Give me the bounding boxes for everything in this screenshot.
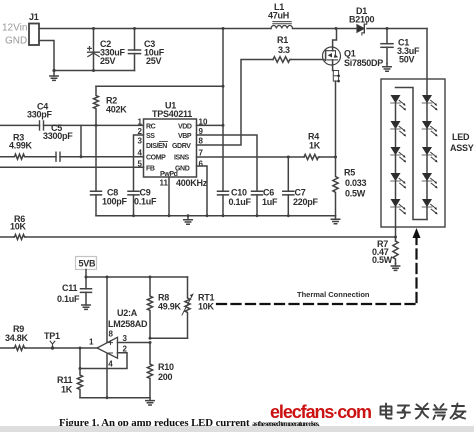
- ground C11: [82, 305, 90, 309]
- junction pin4 rail: [106, 396, 109, 399]
- watermark elecfans.com: [270, 402, 371, 423]
- ground op-amp: [146, 398, 154, 405]
- wire pin4 to rail: [106, 354, 108, 398]
- resistor R10: [147, 343, 152, 398]
- svg-text:RC: RC: [146, 123, 156, 130]
- svg-text:DIS/EN: DIS/EN: [146, 143, 167, 150]
- junction pin8 rail: [106, 276, 109, 279]
- svg-text:25V: 25V: [100, 56, 116, 66]
- svg-text:1K: 1K: [61, 385, 73, 395]
- LED D9 left column: [391, 173, 406, 199]
- capacitor C6: [252, 191, 263, 215]
- svg-text:220pF: 220pF: [293, 197, 319, 207]
- LED D5 right column: [422, 199, 437, 219]
- svg-text:8: 8: [199, 137, 204, 146]
- inductor L1: [271, 22, 293, 29]
- thermal arrow: [413, 228, 421, 238]
- svg-text:0.5W: 0.5W: [372, 255, 393, 265]
- wire C4 branch down to COMP: [80, 125, 82, 156]
- svg-text:11: 11: [160, 179, 169, 188]
- wire R1 to gate: [291, 59, 323, 61]
- wire FB line: [0, 166, 144, 168]
- wire RC line with C4: [0, 124, 144, 126]
- junction C2 bottom: [92, 69, 95, 72]
- wire COMP line: [0, 156, 144, 158]
- svg-text:6: 6: [199, 159, 204, 168]
- svg-text:TPS40211: TPS40211: [152, 109, 192, 119]
- svg-text:200: 200: [158, 372, 173, 382]
- junction C2 top: [92, 27, 95, 30]
- transistor Q1: [323, 29, 341, 158]
- svg-text:Thermal Connection: Thermal Connection: [297, 290, 370, 299]
- LED D4 right column: [422, 173, 437, 199]
- svg-text:1: 1: [89, 338, 94, 347]
- svg-text:3.3: 3.3: [278, 45, 290, 55]
- junction VDD: [222, 124, 225, 127]
- svg-text:C6: C6: [263, 188, 274, 198]
- svg-text:LM258AD: LM258AD: [108, 319, 148, 329]
- LED D1 right column: [422, 95, 437, 121]
- junction C1 top: [386, 27, 389, 30]
- wire top rail after L1: [293, 28, 357, 30]
- junction feedback-R11: [79, 367, 82, 370]
- ground input: [50, 69, 58, 81]
- bottom gray band: [0, 426, 474, 432]
- wire 12V branch down to VDD: [222, 29, 224, 126]
- wire op-amp bottom rail: [80, 397, 150, 399]
- svg-text:3300pF: 3300pF: [43, 131, 73, 141]
- wire R6 line: [0, 236, 396, 238]
- svg-text:100pF: 100pF: [102, 197, 128, 207]
- junction R8 rail: [149, 276, 152, 279]
- svg-text:R11: R11: [57, 375, 73, 385]
- svg-text:0.1uF: 0.1uF: [57, 294, 80, 304]
- svg-text:ISNS: ISNS: [174, 155, 189, 162]
- svg-text:3: 3: [138, 137, 143, 146]
- ground C1: [383, 64, 391, 72]
- diode D1 B2100: [357, 22, 367, 35]
- svg-text:TP1: TP1: [44, 331, 60, 341]
- wire C1 node down to LED assy: [426, 29, 428, 96]
- svg-text:SS: SS: [146, 133, 155, 140]
- wire GND pin to rail: [197, 166, 208, 216]
- svg-text:1K: 1K: [309, 141, 321, 151]
- wire SS to C9: [134, 135, 144, 191]
- svg-text:U2:A: U2:A: [117, 308, 138, 318]
- wire ISNS line: [197, 156, 305, 158]
- wire ground rail: [96, 215, 336, 217]
- wire top rail 12V: [39, 28, 271, 30]
- svg-text:8: 8: [109, 330, 114, 339]
- svg-text:FB: FB: [146, 165, 155, 172]
- resistor R2: [94, 86, 99, 125]
- svg-text:50V: 50V: [399, 55, 415, 65]
- wire LED inner top jog: [396, 88, 428, 220]
- svg-text:C10: C10: [231, 188, 247, 198]
- svg-text:5VB: 5VB: [79, 259, 97, 269]
- wire LED out to R7: [395, 227, 397, 241]
- op-amp U2:A: [97, 337, 118, 358]
- capacitor C8: [91, 125, 102, 215]
- svg-text:10K: 10K: [198, 302, 215, 312]
- resistor R4: [304, 154, 320, 159]
- resistor R5: [333, 157, 338, 216]
- capacitor C3: [129, 29, 141, 71]
- svg-text:Q1: Q1: [344, 49, 356, 59]
- thermal connection dashed line: [217, 238, 417, 304]
- wire pin2 feedback: [80, 353, 127, 369]
- resistor R8: [147, 277, 152, 338]
- LED assembly box: [381, 79, 445, 227]
- wire RT1 bottom to R8 line: [150, 337, 188, 339]
- junction D1-Q1 drain: [335, 27, 338, 30]
- test point TP1: [50, 341, 55, 349]
- wire 5VB rail: [86, 276, 188, 278]
- thermistor RT1: [182, 277, 193, 338]
- svg-text:1: 1: [138, 117, 143, 126]
- capacitor C10: [218, 125, 229, 215]
- svg-text:Si7850DP: Si7850DP: [344, 58, 383, 68]
- svg-text:400KHz: 400KHz: [176, 178, 208, 188]
- svg-text:R1: R1: [277, 35, 288, 45]
- svg-text:49.9K: 49.9K: [158, 302, 182, 312]
- capacitor C2: [88, 29, 100, 71]
- svg-text:12Vin: 12Vin: [2, 23, 27, 34]
- capacitor C1: [381, 29, 393, 64]
- resistor R9: [14, 346, 26, 351]
- svg-text:25V: 25V: [146, 56, 162, 66]
- caption Figure 1: [59, 413, 469, 431]
- wire op-amp output: [0, 347, 97, 349]
- resistor R3: [14, 154, 26, 159]
- ground R7: [391, 264, 399, 271]
- IC U1 TPS40211: [144, 119, 197, 177]
- LED D8 left column: [391, 147, 406, 173]
- wire rail to R2 top: [96, 85, 223, 87]
- svg-text:B2100: B2100: [349, 15, 375, 25]
- svg-text:GDRV: GDRV: [172, 143, 191, 150]
- svg-text:0.1uF: 0.1uF: [229, 197, 252, 207]
- wire GDRV to R1: [197, 60, 274, 146]
- svg-text:ASSY: ASSY: [450, 143, 474, 153]
- svg-text:3: 3: [123, 334, 128, 343]
- LED D6 left column: [391, 95, 406, 121]
- junction dots ground rail: [132, 214, 290, 217]
- svg-text:VBP: VBP: [178, 133, 192, 140]
- junction top rail branch: [222, 27, 225, 30]
- svg-text:VDD: VDD: [178, 123, 192, 130]
- svg-text:4: 4: [138, 149, 143, 158]
- svg-text:4.99K: 4.99K: [9, 141, 33, 151]
- watermark chinese 电子发烧友: [378, 401, 470, 423]
- svg-text:R10: R10: [158, 362, 174, 372]
- svg-text:47uH: 47uH: [268, 11, 289, 21]
- wire VBP to C6: [197, 135, 258, 191]
- connector J1: [29, 24, 39, 46]
- capacitor C7: [283, 157, 294, 216]
- svg-text:34.8K: 34.8K: [5, 333, 29, 343]
- svg-text:0.1uF: 0.1uF: [134, 197, 157, 207]
- junction C3 top: [133, 27, 136, 30]
- svg-text:GND: GND: [5, 36, 27, 47]
- LED D10 left column: [391, 199, 406, 227]
- junction 5VB rail: [85, 276, 88, 279]
- junction RT1-R8: [149, 337, 152, 340]
- resistor R11: [77, 348, 82, 398]
- capacitor C4: [40, 121, 44, 130]
- junction R2-RC: [95, 124, 98, 127]
- svg-text:0.033: 0.033: [345, 178, 367, 188]
- capacitor C9: [128, 191, 139, 215]
- wire top rail after D1: [367, 28, 427, 30]
- wire VDD pin to rail: [197, 124, 224, 126]
- svg-text:LED: LED: [452, 132, 470, 142]
- supply 5VB: [76, 257, 97, 270]
- junction rail-R2: [222, 85, 225, 88]
- svg-text:C7: C7: [295, 188, 306, 198]
- svg-text:10K: 10K: [10, 222, 27, 232]
- resistor R1: [273, 57, 291, 63]
- svg-text:R5: R5: [344, 168, 355, 178]
- wire PwPd to rail: [168, 177, 170, 216]
- svg-text:4: 4: [108, 360, 113, 369]
- ground main rail: [184, 216, 192, 225]
- resistor R7: [393, 241, 398, 264]
- LED D3 right column: [422, 147, 437, 173]
- wire 5VB down: [85, 270, 87, 289]
- junction output-R11: [79, 347, 82, 350]
- resistor R6: [14, 235, 26, 240]
- capacitor C11: [81, 289, 92, 305]
- junction C7 top: [287, 156, 290, 159]
- svg-text:402K: 402K: [106, 105, 127, 115]
- svg-text:J1: J1: [29, 12, 39, 22]
- wire J1 gnd to cap bottoms: [39, 41, 135, 71]
- wire op-amp V+ pin8: [106, 277, 108, 342]
- junction source-R5: [334, 156, 337, 159]
- junction COMP branch: [80, 155, 83, 158]
- svg-text:C11: C11: [62, 283, 78, 293]
- wire pin3 to divider: [118, 342, 151, 344]
- capacitor C5: [56, 152, 60, 161]
- svg-text:5: 5: [138, 159, 143, 168]
- LED D7 left column: [391, 121, 406, 147]
- LED D2 right column: [422, 121, 437, 147]
- svg-text:330pF: 330pF: [27, 110, 53, 120]
- junction R6-R7: [394, 236, 397, 239]
- ground R5: [331, 216, 339, 224]
- svg-text:1uF: 1uF: [262, 197, 278, 207]
- svg-text:0.5W: 0.5W: [345, 189, 366, 199]
- wire R4 to Q1 source: [320, 156, 336, 158]
- junction pin3-divider: [149, 341, 152, 344]
- svg-text:COMP: COMP: [146, 155, 166, 162]
